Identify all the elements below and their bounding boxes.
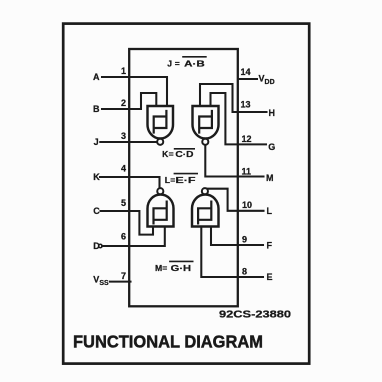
- wire pin1 A to gate U1 right input: [102, 77, 167, 106]
- wire pin7 VSS stub: [110, 281, 131, 283]
- svg-text:H: H: [269, 108, 276, 118]
- svg-text:10: 10: [242, 200, 252, 210]
- svg-text:M: M: [266, 173, 274, 183]
- svg-text:13: 13: [241, 100, 251, 110]
- svg-text:=: =: [169, 149, 174, 159]
- svg-text:1: 1: [121, 66, 126, 76]
- svg-text:=: =: [162, 263, 167, 273]
- U2 output bubble: [202, 139, 208, 145]
- U4 output bubble: [202, 188, 208, 194]
- wire pin4 K from gate U3 output bubble: [100, 177, 160, 188]
- svg-text:5: 5: [121, 198, 126, 208]
- svg-text:=: =: [175, 58, 180, 68]
- svg-text:D: D: [93, 241, 100, 251]
- wire pin12 G to gate U2 right input: [211, 93, 267, 144]
- wire pin5 C to gate U3 left input: [101, 211, 154, 235]
- svg-text:G: G: [268, 142, 275, 152]
- svg-text:E: E: [267, 272, 273, 282]
- U3 output bubble: [157, 188, 163, 194]
- wire pin14 VDD stub: [239, 78, 258, 80]
- svg-text:C: C: [93, 206, 100, 216]
- svg-text:A·B: A·B: [184, 58, 205, 68]
- wire pin8 E to gate U4 left input: [201, 227, 263, 278]
- svg-text:C·D: C·D: [175, 149, 193, 159]
- overline of equation M = G.H: [170, 260, 193, 262]
- svg-text:12: 12: [242, 134, 252, 144]
- svg-text:M: M: [155, 263, 162, 273]
- svg-text:F: F: [267, 240, 273, 250]
- IC package box: [129, 49, 238, 306]
- overline of equation J = A.B: [183, 56, 206, 58]
- svg-text:14: 14: [241, 67, 251, 77]
- svg-text:FUNCTIONAL DIAGRAM: FUNCTIONAL DIAGRAM: [73, 332, 263, 352]
- junction dot on wire D: [99, 244, 102, 247]
- overline of equation L = E.F: [174, 173, 197, 175]
- wire pin6 D to gate U3 right input: [102, 227, 165, 247]
- svg-text:7: 7: [121, 271, 126, 281]
- wire pin11 M from gate U2 output bubble: [205, 145, 263, 177]
- U1 hysteresis glyph: [154, 111, 167, 133]
- NAND gate U3 body (points up): [148, 195, 174, 227]
- NAND gate U1 body (points down): [148, 106, 174, 139]
- svg-text:A: A: [93, 72, 100, 82]
- svg-text:J: J: [94, 137, 99, 147]
- svg-text:G·H: G·H: [171, 263, 191, 273]
- svg-text:J: J: [167, 58, 172, 68]
- svg-text:3: 3: [121, 131, 126, 141]
- svg-text:K: K: [93, 172, 100, 182]
- overline of equation K = C.D: [175, 148, 195, 150]
- svg-text:L: L: [165, 175, 170, 185]
- border frame: [63, 24, 309, 364]
- wire pin2 B to gate U1 left input: [102, 93, 156, 109]
- U3 hysteresis glyph: [154, 202, 167, 224]
- svg-text:L: L: [267, 206, 273, 216]
- svg-text:4: 4: [121, 164, 126, 174]
- svg-text:E·F: E·F: [175, 175, 195, 185]
- svg-text:6: 6: [121, 232, 126, 242]
- U4 hysteresis glyph: [198, 202, 211, 224]
- svg-text:92CS-23880: 92CS-23880: [219, 309, 291, 320]
- svg-text:9: 9: [242, 234, 247, 244]
- U1 output bubble: [157, 139, 163, 145]
- wire pin9 F to gate U4 right input: [211, 227, 263, 246]
- wire pin10 L from gate U4 output bubble: [205, 189, 264, 211]
- svg-text:B: B: [93, 104, 100, 114]
- wire pin3 J from gate U1 output bubble: [100, 141, 157, 143]
- NAND gate U2 body (points down): [193, 106, 219, 139]
- svg-text:11: 11: [242, 166, 252, 176]
- U2 hysteresis glyph: [199, 111, 212, 133]
- svg-text:2: 2: [121, 98, 126, 108]
- NAND gate U4 body (points up): [192, 195, 219, 227]
- wire pin13 H to gate U2 left input: [200, 84, 267, 112]
- svg-text:8: 8: [242, 267, 247, 277]
